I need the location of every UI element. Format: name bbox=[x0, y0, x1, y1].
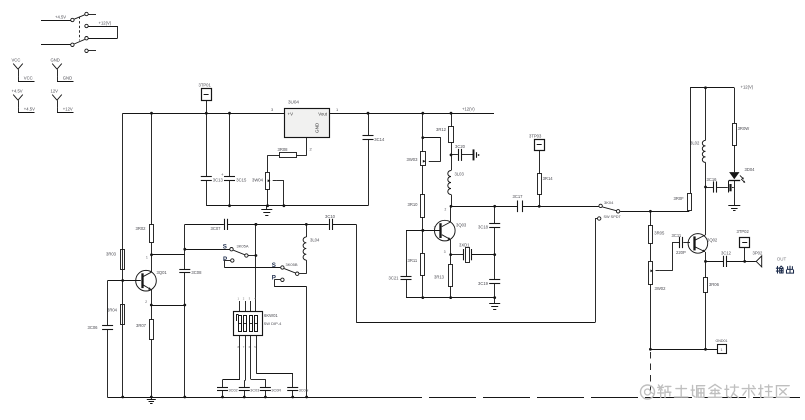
svg-text:3C10: 3C10 bbox=[325, 214, 336, 219]
wire audio output node bbox=[704, 260, 756, 263]
svg-text:3L03: 3L03 bbox=[455, 172, 465, 177]
wire Q01 emitter node bbox=[150, 304, 185, 307]
filter bottom pin numbers bbox=[238, 345, 257, 349]
svg-text:3C02: 3C02 bbox=[229, 388, 238, 392]
ground bbox=[147, 397, 156, 404]
resistor R04 bbox=[107, 305, 125, 325]
wire bottom-right ground net bbox=[649, 348, 717, 351]
switch K05B P throw bbox=[272, 274, 307, 397]
switch K05A P throw bbox=[223, 256, 280, 268]
wire Q03 base bbox=[406, 229, 440, 232]
+12V rail top right bbox=[690, 86, 734, 193]
wire filter pin to C05 bbox=[256, 336, 293, 387]
ceramic filter KW01 SW DIP-4 bbox=[234, 312, 283, 336]
svg-text:+12(V): +12(V) bbox=[99, 21, 112, 26]
power port GND bbox=[51, 57, 74, 81]
svg-text:GND: GND bbox=[63, 75, 72, 80]
watermark @ sign bbox=[641, 385, 655, 399]
transistor Q02 bbox=[688, 234, 718, 262]
crystal XD1 bbox=[449, 242, 494, 262]
label +4.5V on switch pole bbox=[55, 15, 66, 20]
capacitor C18 bbox=[478, 206, 500, 254]
svg-text:3C12: 3C12 bbox=[721, 251, 732, 256]
label 输出 (output) bbox=[776, 266, 793, 273]
svg-text:3K05A: 3K05A bbox=[237, 244, 249, 249]
inductor L03 bbox=[448, 155, 465, 206]
capacitor C04 bbox=[260, 388, 281, 398]
switch K05A bbox=[185, 243, 256, 257]
svg-text:3TP02: 3TP02 bbox=[737, 229, 750, 234]
test point TP02 bbox=[737, 229, 750, 261]
svg-text:3Q03: 3Q03 bbox=[456, 223, 467, 228]
resistor R12 bbox=[436, 113, 454, 156]
wire IF bandpass top net bbox=[185, 223, 356, 226]
wire filter pin to C04 bbox=[251, 336, 266, 387]
transistor Q03 bbox=[434, 206, 467, 254]
svg-text:3C14: 3C14 bbox=[374, 137, 385, 142]
ground bbox=[261, 206, 272, 216]
inductor L04 bbox=[303, 224, 320, 260]
svg-text:S: S bbox=[272, 262, 276, 269]
capacitor C03 bbox=[239, 388, 260, 398]
power switch K01 (DPDT band/voltage selector) bbox=[41, 12, 118, 52]
svg-text:+4.5V: +4.5V bbox=[12, 88, 23, 93]
capacitor C08 bbox=[179, 224, 202, 397]
capacitor C20 with probe stub bbox=[451, 144, 480, 161]
svg-text:3W04: 3W04 bbox=[252, 177, 264, 182]
svg-text:VCC: VCC bbox=[24, 75, 33, 80]
svg-text:3R0W: 3R0W bbox=[738, 126, 750, 131]
svg-text:3L02: 3L02 bbox=[690, 141, 700, 146]
svg-text:1: 1 bbox=[721, 348, 723, 352]
svg-text:220P: 220P bbox=[676, 250, 686, 255]
potentiometer W04 bbox=[252, 173, 284, 206]
wire bandpass to K04 throw bbox=[356, 224, 358, 322]
svg-text:3D04: 3D04 bbox=[745, 167, 756, 172]
svg-text:3R04: 3R04 bbox=[107, 307, 118, 312]
svg-text:2: 2 bbox=[145, 300, 147, 304]
svg-text:+12V: +12V bbox=[63, 106, 73, 111]
capacitor C16 bbox=[704, 177, 734, 193]
wire dashed to ground bus bbox=[650, 352, 652, 397]
capacitor C10 bbox=[325, 214, 336, 230]
capacitor C06 bbox=[88, 281, 114, 398]
capacitor C15 (electrolytic) bbox=[221, 113, 247, 206]
wire R08 to W04 bbox=[268, 155, 280, 172]
resistor R0W bbox=[733, 124, 750, 173]
switch K04 SW-SPDT bbox=[595, 200, 621, 220]
capacitor C21 bbox=[389, 230, 412, 297]
svg-text:S: S bbox=[223, 243, 227, 250]
wire regulator pin2 bbox=[296, 137, 306, 156]
svg-text:3R0F: 3R0F bbox=[674, 196, 685, 201]
svg-text:GND01: GND01 bbox=[716, 339, 728, 343]
svg-text:GND: GND bbox=[51, 57, 60, 62]
resistor R13 bbox=[434, 255, 453, 298]
svg-text:3C16: 3C16 bbox=[707, 177, 718, 182]
svg-text:1: 1 bbox=[434, 226, 436, 230]
wire K04 lower throw to bandpass line bbox=[356, 219, 595, 323]
test point TP01 bbox=[199, 82, 212, 113]
svg-text:2: 2 bbox=[445, 207, 447, 211]
svg-text:3R06: 3R06 bbox=[709, 282, 720, 287]
svg-text:3Q01: 3Q01 bbox=[157, 270, 168, 275]
capacitor C12 bbox=[721, 251, 732, 267]
regulator U04 bbox=[271, 100, 339, 152]
svg-text:3L04: 3L04 bbox=[310, 238, 320, 243]
resistor R0F bbox=[674, 194, 692, 212]
wire filter pin to C02 bbox=[223, 336, 240, 387]
capacitor C19 bbox=[478, 253, 500, 303]
resistor R03 bbox=[106, 250, 125, 270]
svg-text:3R08: 3R08 bbox=[278, 147, 289, 152]
filter top pin stubs bbox=[238, 297, 257, 312]
capacitor C07 bbox=[211, 219, 228, 231]
svg-text:P: P bbox=[272, 274, 276, 281]
resistor R08 bbox=[278, 147, 297, 157]
svg-text:3C13: 3C13 bbox=[213, 178, 224, 183]
svg-text:1: 1 bbox=[146, 256, 148, 260]
resistor R11 bbox=[408, 254, 425, 298]
svg-text:3C11: 3C11 bbox=[672, 233, 682, 238]
wire K04 common to R05/R0F bbox=[620, 210, 689, 213]
wire filter pin to C03 bbox=[244, 336, 245, 387]
power port VCC bbox=[12, 57, 35, 81]
svg-text:+4.5V: +4.5V bbox=[24, 106, 35, 111]
svg-text:SW SPDT: SW SPDT bbox=[604, 215, 622, 219]
wire oscillator output node bbox=[450, 205, 599, 208]
svg-text:3C17: 3C17 bbox=[513, 194, 524, 199]
svg-text:3R11: 3R11 bbox=[408, 258, 418, 263]
svg-text:+12(V): +12(V) bbox=[462, 107, 475, 112]
svg-text:3W03: 3W03 bbox=[407, 157, 419, 162]
potentiometer W03 bbox=[407, 113, 441, 195]
resistor R06 bbox=[704, 261, 720, 349]
capacitor C14 bbox=[363, 113, 385, 206]
svg-text:3C21: 3C21 bbox=[389, 275, 400, 280]
svg-text:3K04: 3K04 bbox=[604, 200, 614, 205]
power port +4.5V bbox=[12, 88, 36, 112]
svg-text:3C19: 3C19 bbox=[478, 281, 489, 286]
capacitor C11 220P bbox=[672, 233, 691, 255]
svg-text:3C07: 3C07 bbox=[211, 226, 222, 231]
svg-text:3TP03: 3TP03 bbox=[529, 133, 542, 138]
svg-text:3TP01: 3TP01 bbox=[199, 82, 212, 87]
resistor R07 bbox=[136, 305, 154, 397]
wire Q01 collector node bbox=[146, 255, 185, 260]
wire regulator ground net bbox=[206, 204, 368, 207]
svg-text:3R05: 3R05 bbox=[654, 230, 665, 235]
svg-text:3P02: 3P02 bbox=[753, 250, 763, 255]
transistor Q01 bbox=[136, 270, 168, 305]
ground bbox=[728, 206, 740, 211]
svg-text:3C0N: 3C0N bbox=[299, 388, 309, 392]
test point TP03 bbox=[529, 133, 545, 173]
+12V rail (main horizontal supply net) bbox=[123, 112, 494, 115]
svg-text:3R03: 3R03 bbox=[106, 252, 117, 257]
capacitor C13 bbox=[201, 113, 224, 206]
ground bbox=[489, 304, 500, 310]
svg-text:GND: GND bbox=[315, 122, 320, 133]
label OUT bbox=[777, 256, 787, 261]
label +12(V) on rail bbox=[462, 107, 475, 112]
resistor R10 bbox=[408, 195, 425, 254]
svg-text:3XD1: 3XD1 bbox=[459, 242, 470, 247]
capacitor C17 bbox=[513, 194, 524, 212]
svg-text:3R13: 3R13 bbox=[434, 275, 445, 280]
wire W04 bottom bbox=[267, 189, 269, 206]
svg-text:12V: 12V bbox=[51, 88, 59, 93]
resistor R02 bbox=[136, 113, 154, 272]
svg-text:3R12: 3R12 bbox=[436, 127, 447, 132]
svg-text:Vout: Vout bbox=[318, 111, 328, 116]
watermark text bbox=[658, 384, 789, 397]
svg-text:OUT: OUT bbox=[777, 256, 787, 261]
wire oscillator bottom net bbox=[406, 296, 495, 299]
svg-text:+4.5V: +4.5V bbox=[55, 15, 66, 20]
svg-text:3Q02: 3Q02 bbox=[707, 238, 718, 243]
wire K05A common to filter bbox=[255, 223, 258, 312]
svg-text:3C0R: 3C0R bbox=[271, 388, 281, 392]
svg-text:+V: +V bbox=[288, 111, 294, 116]
svg-text:VCC: VCC bbox=[12, 57, 21, 62]
svg-text:3C20: 3C20 bbox=[455, 144, 466, 149]
ground bus bbox=[107, 396, 801, 399]
svg-text:3R02: 3R02 bbox=[136, 226, 147, 231]
svg-text:3C18: 3C18 bbox=[478, 224, 489, 229]
svg-text:P: P bbox=[223, 256, 227, 263]
inductor L02 bbox=[690, 88, 706, 235]
power port 12V bbox=[51, 88, 74, 112]
label +12(V) on switch throw bbox=[99, 21, 112, 26]
svg-text:3U04: 3U04 bbox=[288, 100, 299, 105]
LED D04 bbox=[729, 167, 755, 206]
svg-text:3K05B: 3K05B bbox=[286, 262, 298, 267]
label +12(V) top right bbox=[741, 85, 754, 90]
svg-text:3C15: 3C15 bbox=[236, 178, 247, 183]
capacitor C02 bbox=[217, 388, 238, 398]
output port P02 bbox=[753, 250, 763, 267]
resistor R14 bbox=[538, 174, 554, 207]
resistor R05 bbox=[649, 211, 665, 261]
svg-text:3R10: 3R10 bbox=[408, 202, 419, 207]
svg-text:+12(V): +12(V) bbox=[741, 85, 754, 90]
svg-text:3C08: 3C08 bbox=[191, 270, 202, 275]
switch K05B bbox=[272, 260, 307, 275]
svg-text:6KW01: 6KW01 bbox=[264, 313, 278, 318]
svg-text:+: + bbox=[221, 172, 224, 177]
potentiometer W02 bbox=[649, 243, 673, 350]
wire Q01 base bbox=[108, 279, 141, 282]
svg-text:3W02: 3W02 bbox=[655, 286, 667, 291]
svg-text:3: 3 bbox=[444, 250, 446, 254]
svg-text:3R14: 3R14 bbox=[543, 176, 554, 181]
svg-text:3C06: 3C06 bbox=[88, 325, 99, 330]
svg-text:SW DIP-4: SW DIP-4 bbox=[264, 321, 283, 326]
connector GND01 bbox=[716, 339, 728, 354]
svg-text:3R07: 3R07 bbox=[136, 323, 147, 328]
capacitor C05 bbox=[287, 388, 308, 398]
wire left rail down bbox=[122, 113, 124, 397]
svg-text:3C03: 3C03 bbox=[250, 388, 259, 392]
